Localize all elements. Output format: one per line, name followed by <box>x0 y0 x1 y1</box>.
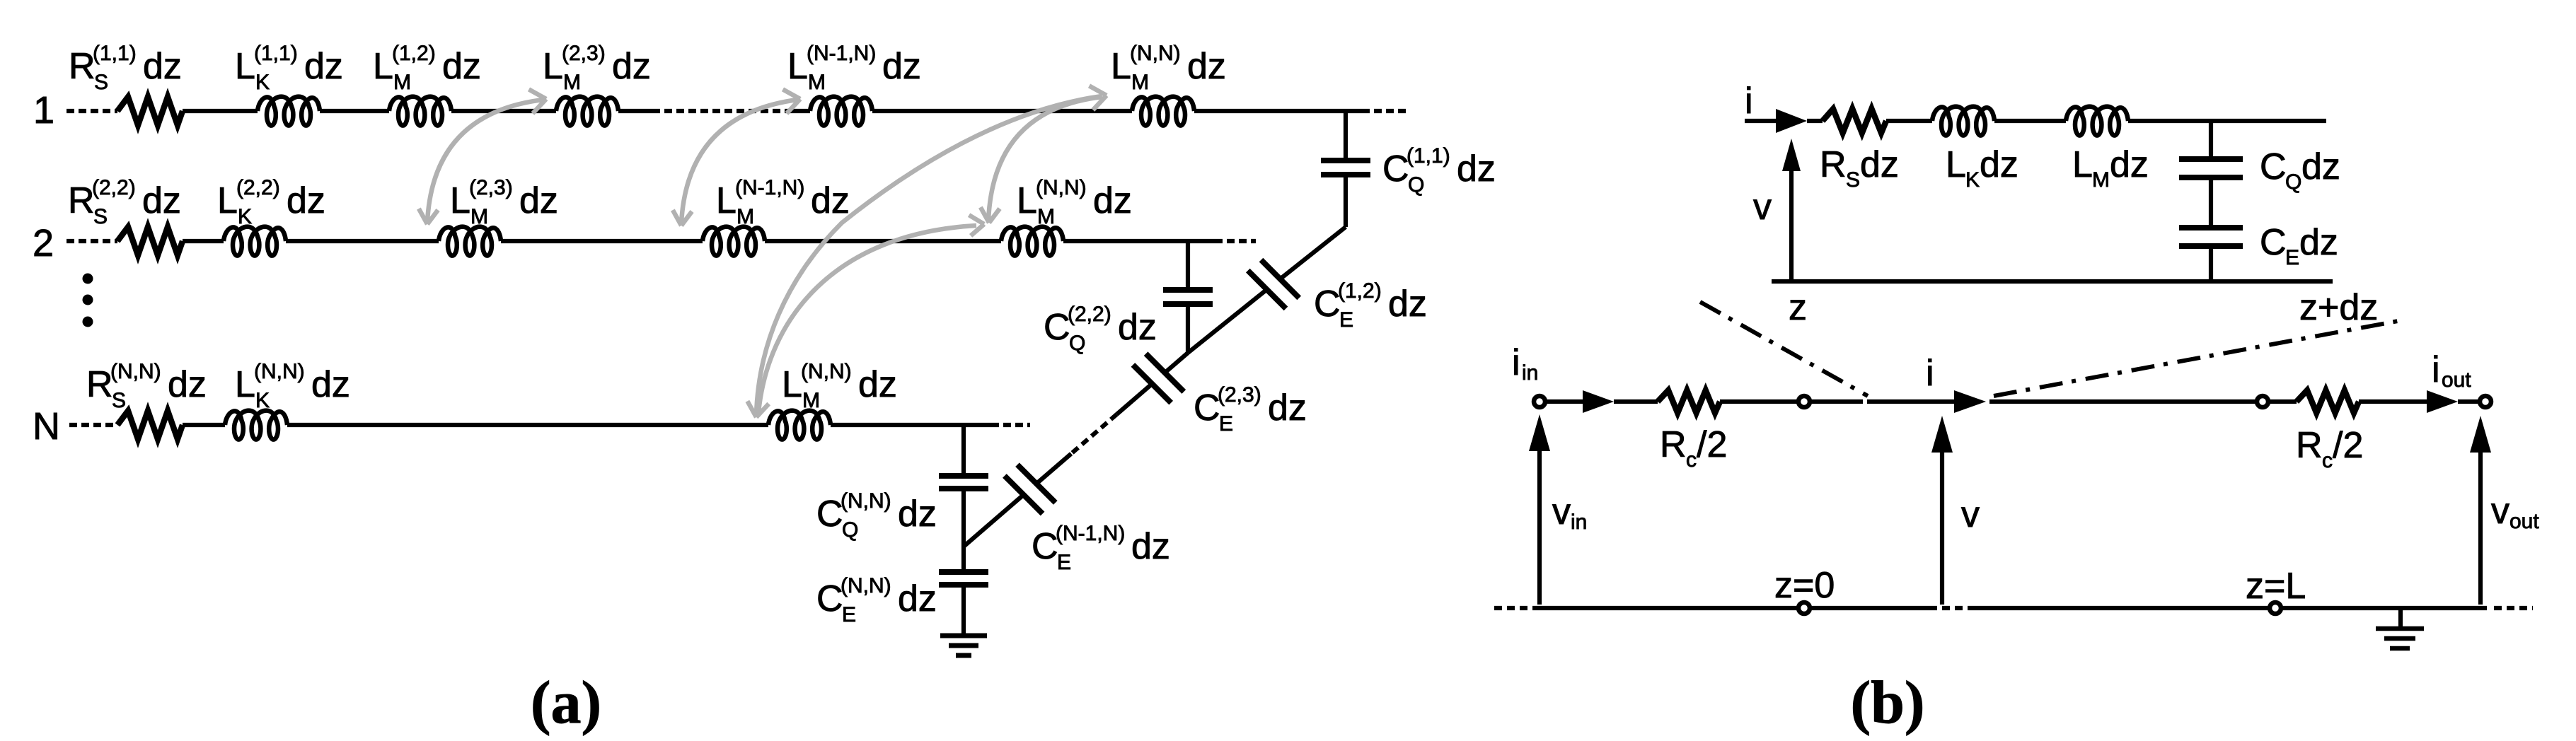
ground (panel a) <box>940 634 987 638</box>
svg-text:L: L <box>1111 46 1131 87</box>
svg-text:(a): (a) <box>531 668 601 736</box>
svg-text:(1,2): (1,2) <box>1338 279 1382 303</box>
svg-text:R: R <box>1820 144 1847 185</box>
svg-text:Q: Q <box>1408 173 1424 197</box>
inductor LM(N,N)dz symbol (row2) <box>1001 227 1063 256</box>
inductor LK(2,2)dz symbol <box>224 227 286 256</box>
svg-text:(N,N): (N,N) <box>801 360 852 383</box>
mutual coupling long arc row2-rowN <box>758 226 976 413</box>
svg-text:C: C <box>1382 148 1409 189</box>
wire RSdz-LKdz <box>1886 119 1932 123</box>
wire row1 dashed middle <box>652 109 791 113</box>
wire row2 seg1 <box>183 239 224 243</box>
voltage arrow vout <box>2478 448 2483 605</box>
svg-text:(b): (b) <box>1850 668 1924 736</box>
svg-text:(1,1): (1,1) <box>254 42 298 65</box>
svg-text:L: L <box>2072 144 2093 185</box>
svg-text:C: C <box>1032 526 1058 567</box>
wire row2 dashed lead-in <box>67 239 117 243</box>
svg-text:C: C <box>1194 387 1220 428</box>
svg-text:dz: dz <box>1860 144 1899 185</box>
svg-text:out: out <box>2509 510 2539 533</box>
svg-text:dz: dz <box>2299 222 2338 263</box>
resistor RS(2,2)dz symbol <box>117 227 183 255</box>
svg-text:dz: dz <box>1457 148 1496 189</box>
voltage arrow v (center) <box>1940 448 1944 605</box>
svg-text:E: E <box>842 603 856 626</box>
svg-text:dz: dz <box>142 180 181 221</box>
svg-text:K: K <box>1965 168 1980 192</box>
svg-text:M: M <box>393 71 411 94</box>
svg-text:dz: dz <box>1388 284 1427 325</box>
capacitor CQdz lead <box>2209 121 2213 159</box>
svg-text:(2,3): (2,3) <box>1218 383 1261 407</box>
svg-text:dz: dz <box>287 180 325 221</box>
svg-text:/2: /2 <box>2333 425 2363 466</box>
svg-text:2: 2 <box>33 222 54 264</box>
svg-text:L: L <box>235 364 255 405</box>
svg-text:dz: dz <box>811 180 850 221</box>
svg-text:M: M <box>563 71 581 94</box>
svg-text:M: M <box>2092 168 2110 192</box>
resistor RS(1,1)dz symbol <box>117 97 183 125</box>
svg-text:dz: dz <box>898 578 937 619</box>
node circle z=L top <box>2257 396 2268 407</box>
svg-text:L: L <box>1946 144 1966 185</box>
svg-text:L: L <box>1017 180 1037 221</box>
capacitor CQ(2,2)dz symbol <box>1163 287 1213 293</box>
wire z=0 to center <box>1810 399 1863 404</box>
svg-text:L: L <box>373 46 393 87</box>
svg-text:i: i <box>1926 353 1934 394</box>
wire row1 seg1 <box>183 109 258 113</box>
wire to Rc/2 left <box>1614 399 1658 404</box>
wire diagonal row1-row2 lower segment <box>1188 290 1266 353</box>
svg-text:dz: dz <box>519 180 558 221</box>
ground symbol (panel b) <box>2398 608 2403 629</box>
svg-text:(N-1,N): (N-1,N) <box>735 176 804 199</box>
svg-text:(2,2): (2,2) <box>1068 303 1111 326</box>
svg-text:z: z <box>1789 287 1807 328</box>
wire row2 dashed tail <box>1215 239 1256 243</box>
svg-text:c: c <box>2322 449 2333 472</box>
ground wire dashed right end <box>2494 606 2533 610</box>
wire row2 seg2 <box>286 239 439 243</box>
wire CE(N,N) to ground <box>961 585 966 636</box>
svg-text:z+dz: z+dz <box>2299 287 2378 328</box>
wire rowN junction vertical lead <box>961 425 966 476</box>
wire row1 seg4 <box>618 109 652 113</box>
wire diagonal row2-rowN segment A <box>1165 353 1188 373</box>
svg-text:dz: dz <box>143 46 182 87</box>
svg-text:(N,N): (N,N) <box>1036 176 1087 199</box>
ground wire right section <box>1975 606 2487 610</box>
wire below CQ(1,1) <box>1344 175 1348 227</box>
voltage arrow vin <box>1537 447 1542 605</box>
svg-text:dz: dz <box>2301 146 2340 187</box>
cut line dash-dot right <box>1994 320 2405 396</box>
capacitor CE(2,3)dz symbol <box>1146 354 1184 392</box>
capacitor CQ(N,N)dz symbol <box>939 473 988 479</box>
svg-text:C: C <box>816 494 843 535</box>
svg-text:z=0: z=0 <box>1774 565 1835 606</box>
current arrow i (center) <box>1954 390 1986 413</box>
svg-text:dz: dz <box>168 364 207 405</box>
node circle z=0 top <box>1798 396 1810 407</box>
mutual coupling arc LM(N-1,N) rows1-2 <box>681 100 797 223</box>
voltage arrow v (top subcircuit) <box>1789 167 1794 280</box>
svg-text:c: c <box>1686 448 1697 472</box>
svg-text:M: M <box>808 71 826 94</box>
capacitor CQ(1,1)dz symbol <box>1321 158 1370 163</box>
capacitor CE(N-1,N)dz symbol <box>1017 465 1056 503</box>
svg-text:C: C <box>2260 222 2287 263</box>
svg-text:S: S <box>94 71 108 94</box>
svg-text:R: R <box>1660 424 1687 465</box>
svg-text:C: C <box>1044 307 1070 348</box>
svg-text:Q: Q <box>2285 170 2301 194</box>
resistor Rc/2 right symbol <box>2297 390 2359 413</box>
wire row1 seg3 <box>451 109 556 113</box>
svg-text:(N,N): (N,N) <box>841 489 891 513</box>
wire rowN seg3 to junction <box>831 423 991 427</box>
node circle z=L bottom <box>2270 602 2281 614</box>
inductor LM(N-1,N)dz symbol (row1) <box>810 97 872 126</box>
wire LKdz-LMdz <box>1994 119 2066 123</box>
svg-text:R: R <box>69 46 96 87</box>
svg-text:R: R <box>68 180 95 221</box>
wire CQdz-CEdz <box>2209 177 2213 228</box>
svg-text:v: v <box>1753 187 1772 228</box>
wire rowN seg2 <box>287 423 768 427</box>
wire diagonal row1-row2 upper segment <box>1281 227 1346 279</box>
inductor LM(N,N)dz symbol (rowN) <box>768 411 831 440</box>
svg-text:M: M <box>1037 205 1055 228</box>
svg-text:E: E <box>2285 246 2299 269</box>
inductor LM(1,2)dz symbol <box>389 97 451 126</box>
svg-text:(2,2): (2,2) <box>236 176 280 199</box>
svg-text:dz: dz <box>1093 180 1132 221</box>
svg-text:C: C <box>2260 146 2287 187</box>
svg-text:dz: dz <box>1980 144 2018 185</box>
svg-text:dz: dz <box>1118 307 1157 348</box>
ground wire dashed left end <box>1494 606 1533 610</box>
svg-text:C: C <box>1314 284 1341 325</box>
svg-text:L: L <box>787 46 808 87</box>
svg-text:M: M <box>802 389 820 412</box>
svg-text:L: L <box>450 180 470 221</box>
inductor LM(2,3)dz symbol (row2) <box>439 227 501 256</box>
svg-text:dz: dz <box>898 494 937 535</box>
svg-text:(N-1,N): (N-1,N) <box>1056 522 1125 545</box>
wire to RSdz <box>1807 119 1823 123</box>
wire to Rc/2 right <box>2269 399 2297 404</box>
wire row1 seg7 to junction <box>1194 109 1362 113</box>
wire stub at i arrow <box>1745 119 1777 123</box>
svg-text:dz: dz <box>304 46 343 87</box>
inductor LKdz symbol <box>1932 107 1994 136</box>
ground wire left section <box>1533 606 1929 610</box>
svg-text:dz: dz <box>858 364 897 405</box>
svg-text:i: i <box>1745 81 1753 122</box>
svg-text:i: i <box>2432 349 2440 390</box>
wire row1 seg5 <box>791 109 810 113</box>
svg-text:(1,1): (1,1) <box>1407 144 1450 168</box>
svg-text:M: M <box>1131 71 1149 94</box>
svg-text:(N-1,N): (N-1,N) <box>807 42 876 65</box>
wire iin <box>1546 399 1585 404</box>
capacitor CQdz symbol <box>2179 156 2243 162</box>
svg-text:L: L <box>235 46 255 87</box>
ground wire dashed middle <box>1929 606 1975 610</box>
svg-text:L: L <box>716 180 737 221</box>
svg-text:S: S <box>93 205 108 228</box>
svg-text:dz: dz <box>311 364 350 405</box>
svg-text:dz: dz <box>1268 387 1307 428</box>
wire row2 seg3 <box>501 239 703 243</box>
capacitor CE(1,2)dz symbol <box>1261 260 1300 298</box>
svg-text:v: v <box>1552 491 1571 532</box>
svg-text:dz: dz <box>882 46 921 87</box>
svg-text:out: out <box>2442 368 2471 392</box>
cut line dash-dot left <box>1700 302 1868 396</box>
svg-text:(N,N): (N,N) <box>110 360 161 383</box>
wire center to z=L <box>1989 399 2257 404</box>
svg-text:(N,N): (N,N) <box>254 360 305 383</box>
svg-text:(N,N): (N,N) <box>841 574 891 597</box>
svg-text:dz: dz <box>612 46 651 87</box>
svg-text:L: L <box>543 46 563 87</box>
wire row1 seg6 <box>872 109 1132 113</box>
wire row1 dashed lead-in <box>67 109 117 113</box>
resistor RSdz symbol <box>1823 109 1886 133</box>
wire after Rc/2 left <box>1720 399 1798 404</box>
svg-text:K: K <box>255 389 270 412</box>
svg-text:E: E <box>1057 551 1071 574</box>
wire below CQ(N,N) to node <box>961 489 966 547</box>
svg-text:S: S <box>1846 168 1860 192</box>
wire below CQ(2,2) to node <box>1186 304 1190 353</box>
svg-text:E: E <box>1339 308 1353 332</box>
svg-text:i: i <box>1512 342 1520 383</box>
inductor LMdz symbol <box>2066 107 2128 136</box>
wire diagonal row2-rowN segment B <box>1116 385 1151 415</box>
svg-text:(2,3): (2,3) <box>562 42 606 65</box>
wire after Rc/2 right <box>2359 399 2428 404</box>
svg-text:E: E <box>1219 412 1233 436</box>
wire row2 junction vertical lead <box>1186 241 1190 290</box>
svg-text:(1,1): (1,1) <box>93 42 137 65</box>
wire row2 seg5 to junction <box>1063 239 1215 243</box>
current arrow i (top subcircuit) <box>1776 109 1807 133</box>
mutual coupling arc LM(2,3) rows1-2 <box>427 100 543 222</box>
svg-text:dz: dz <box>1187 46 1226 87</box>
svg-text:N: N <box>33 405 60 448</box>
svg-text:v: v <box>1961 494 1980 535</box>
input terminal circle <box>1534 396 1545 407</box>
wire diagonal row2-rowN dashed segment <box>1071 414 1116 454</box>
resistor Rc/2 left symbol <box>1658 390 1720 413</box>
svg-text:dz: dz <box>1131 526 1170 567</box>
svg-text:R: R <box>2296 425 2323 466</box>
wire row1 junction vertical lead <box>1344 111 1348 161</box>
inductor LM(N,N)dz symbol (row1) <box>1132 97 1194 126</box>
wire row2 seg4 <box>765 239 1001 243</box>
capacitor CEdz symbol <box>2179 225 2243 231</box>
inductor LM(2,3)dz symbol (row1) <box>556 97 618 126</box>
svg-text:K: K <box>238 205 252 228</box>
wire to output terminal <box>2458 399 2480 404</box>
inductor LM(N-1,N)dz symbol (row2) <box>703 227 765 256</box>
wire CEdz to bottom <box>2209 246 2213 281</box>
svg-text:K: K <box>255 71 270 94</box>
svg-text:(2,2): (2,2) <box>92 176 136 199</box>
svg-text:C: C <box>816 578 843 619</box>
current arrow iin <box>1583 390 1614 413</box>
svg-text:R: R <box>86 364 113 405</box>
mutual coupling long arc row1-rowN <box>756 96 1102 414</box>
wire node to CE(N,N) <box>961 547 966 572</box>
svg-text:Q: Q <box>842 518 858 542</box>
svg-text:in: in <box>1571 510 1587 534</box>
vertical ellipsis dots between row2 and rowN <box>83 274 93 284</box>
bottom wire (top subcircuit) <box>1772 279 2333 284</box>
svg-text:L: L <box>782 364 802 405</box>
wire row1 dashed tail <box>1362 109 1408 113</box>
svg-text:(N,N): (N,N) <box>1130 42 1181 65</box>
svg-text:v: v <box>2491 491 2509 532</box>
svg-text:(2,3): (2,3) <box>469 176 513 199</box>
inductor LK(N,N)dz symbol <box>225 411 287 440</box>
capacitor CE(N,N)dz symbol <box>939 569 988 575</box>
svg-text:S: S <box>112 389 126 412</box>
wire rowN dashed tail <box>991 423 1030 427</box>
node circle z=0 bottom <box>1798 602 1810 614</box>
svg-text:/2: /2 <box>1697 424 1727 465</box>
svg-text:dz: dz <box>2110 144 2149 185</box>
svg-text:1: 1 <box>33 89 54 132</box>
svg-text:Q: Q <box>1069 332 1085 355</box>
svg-text:L: L <box>217 180 238 221</box>
wire LMdz to right end <box>2128 119 2326 123</box>
wire row1 seg2 <box>320 109 389 113</box>
svg-text:M: M <box>737 205 754 228</box>
inductor LK(1,1)dz symbol <box>258 97 320 126</box>
wire diagonal row2-rowN segment C <box>1037 454 1071 484</box>
wire rowN seg1 <box>183 423 225 427</box>
mutual coupling arc LM(N,N) rows1-2 <box>988 97 1102 221</box>
current arrow iout <box>2427 390 2458 413</box>
svg-text:in: in <box>1522 361 1538 385</box>
resistor RS(N,N)dz symbol <box>117 411 183 439</box>
wire diagonal row2-rowN segment D to node <box>964 495 1023 547</box>
svg-text:dz: dz <box>442 46 481 87</box>
svg-text:M: M <box>470 205 488 228</box>
svg-text:(1,2): (1,2) <box>392 42 436 65</box>
wire rowN dashed lead-in <box>69 423 117 427</box>
output terminal circle <box>2480 396 2491 407</box>
